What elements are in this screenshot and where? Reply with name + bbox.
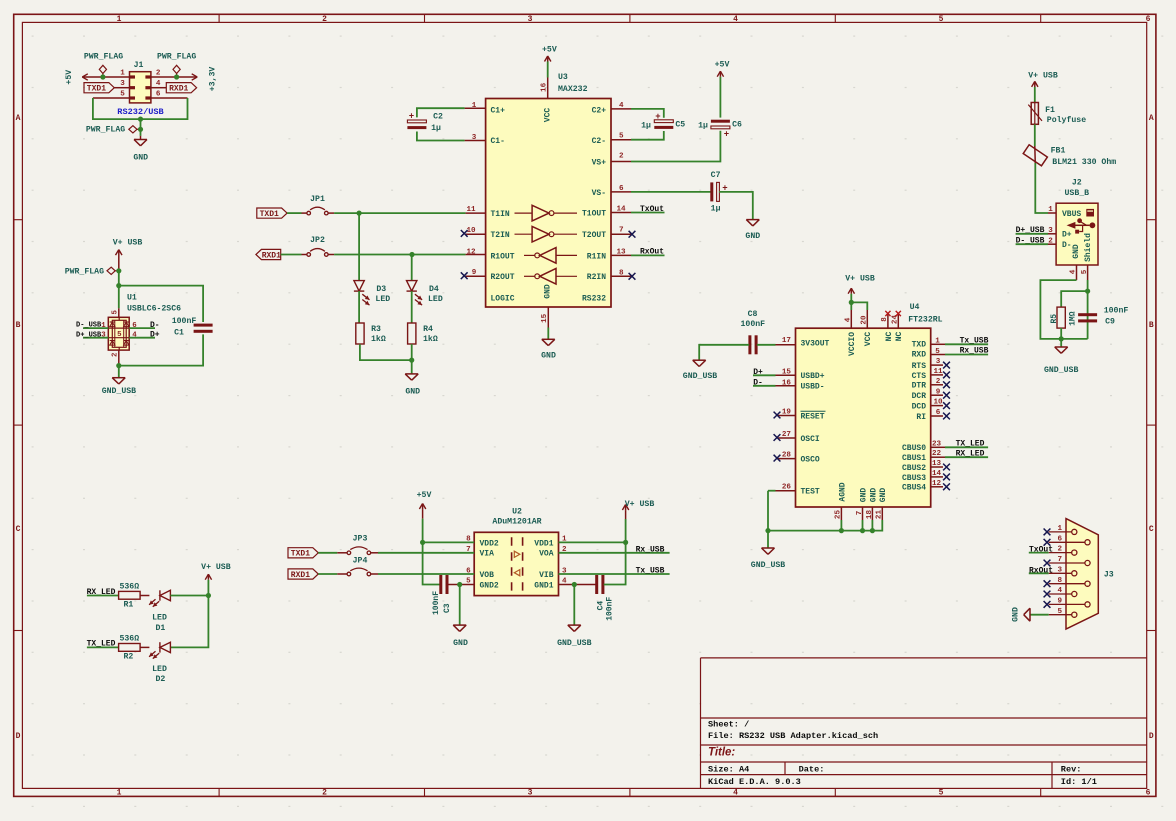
global label TXD1 at JP3 [288,548,318,558]
power V+ USB above U4 [848,288,851,294]
wire V+ USB down to U1 [118,271,120,309]
junction U1 bottom [116,363,121,368]
capacitor C9 [1078,313,1097,316]
svg-text:VCC: VCC [864,332,873,347]
svg-text:NC: NC [885,332,894,342]
svg-text:Rx_USB: Rx_USB [960,347,989,356]
svg-text:1µ: 1µ [431,124,441,133]
power V+ USB symbol at U1 [116,250,119,256]
svg-text:6: 6 [936,409,941,417]
wire C6 to +5V [719,77,721,118]
svg-text:A: A [16,114,21,123]
no-connect X U4 pin28 [774,455,781,462]
J3 pin1 hole [1072,529,1077,534]
svg-text:5: 5 [935,348,940,356]
svg-text:USBD+: USBD+ [801,372,825,381]
U4 pin12 stub [931,486,943,488]
ground GND_USB at U1 [112,377,125,379]
svg-text:+3,3V: +3,3V [209,67,218,92]
junction RXD1 net [409,252,414,257]
svg-text:27: 27 [782,431,792,439]
U4 pin7 stub [862,507,864,520]
U1 pin2 stub [118,350,120,366]
J3 pin4 line [1049,593,1072,595]
svg-text:CBUS0: CBUS0 [902,444,926,453]
no-connect X U4 pin11 [943,372,950,379]
svg-text:GND: GND [405,387,420,396]
junction U1 top branch [116,283,121,288]
svg-text:1kΩ: 1kΩ [423,334,438,344]
svg-text:14: 14 [932,470,942,478]
wire FB1 to J2 VBUS [1035,163,1048,213]
svg-text:25: 25 [835,510,843,520]
svg-text:VS+: VS+ [592,158,607,167]
svg-text:C6: C6 [732,121,742,130]
svg-text:+: + [655,112,660,122]
wire D+ to U4 pin15 [753,374,776,376]
svg-text:CBUS3: CBUS3 [902,474,926,483]
svg-text:Id: 1/1: Id: 1/1 [1061,777,1097,787]
svg-text:LOGIC: LOGIC [491,295,515,304]
wire RXD1 to JP4 [318,573,337,575]
ground GND_USB below U4 [762,547,775,549]
J3 pin5 hole [1072,612,1077,617]
diode D2 LED [159,642,161,652]
wire R1 to D1 [140,595,149,597]
svg-text:FT232RL: FT232RL [908,315,942,324]
resistor R5 [1057,307,1065,328]
U4 pin4 stub [850,310,852,328]
svg-text:C2+: C2+ [592,107,607,116]
svg-text:TXD1: TXD1 [87,85,106,94]
svg-text:7: 7 [856,510,864,515]
no-connect X J3 [1044,529,1051,536]
svg-text:LED: LED [152,613,167,622]
PWR_FLAG flag at +3.3V [176,74,178,78]
global label RXD1 at JP4 [288,569,318,579]
svg-text:MAX232: MAX232 [558,85,588,94]
svg-text:TEST: TEST [801,488,820,497]
J3 pin9 hole [1085,602,1090,607]
svg-text:VBUS: VBUS [1062,210,1081,219]
no-connect X U4 pin10 [943,402,950,409]
svg-text:TX_LED: TX_LED [956,440,985,449]
svg-text:GND: GND [1012,607,1021,622]
svg-text:V+ USB: V+ USB [201,563,231,572]
J3 pin6 hole [1085,540,1090,545]
svg-text:RS232: RS232 [582,295,606,304]
no-connect X J3 [1044,560,1051,567]
no-connect X J3 [1044,591,1051,598]
svg-text:9: 9 [936,388,941,396]
svg-text:C3: C3 [443,603,452,613]
svg-text:ADuM1201AR: ADuM1201AR [492,518,541,527]
wire TxOut to J3 pin2 [1029,552,1049,554]
svg-text:2: 2 [619,153,624,161]
svg-text:536Ω: 536Ω [119,583,139,592]
svg-text:1: 1 [117,789,122,798]
svg-text:LED: LED [428,295,443,304]
power V+ USB above U2 [622,505,625,511]
svg-text:Tx_USB: Tx_USB [960,336,989,345]
svg-text:10: 10 [933,399,943,407]
wire +5V rail at U2 [423,519,440,585]
U4 pin8 stub [887,314,889,329]
svg-text:J1: J1 [134,61,144,70]
wire U3 pin13 RxOut [611,254,631,256]
svg-text:6: 6 [1058,535,1063,543]
svg-text:+5V: +5V [65,70,74,85]
junction +5V J1 pin1 [100,74,105,79]
svg-text:2: 2 [1058,546,1063,554]
jumper JP4 [347,572,351,576]
wire shield down [1087,280,1089,339]
power +5V above U2 [419,504,422,510]
svg-text:B: B [1149,321,1154,330]
svg-text:C2: C2 [433,112,443,121]
svg-text:BLM21 330 Ohm: BLM21 330 Ohm [1052,157,1116,167]
svg-text:7: 7 [466,546,471,554]
ground GND at J3 (left) [1029,608,1031,621]
svg-text:100nF: 100nF [741,320,766,329]
U3 pin15 stub [547,307,549,328]
wire R3 to GND rail [360,344,412,360]
no-connect X U4 pin27 [774,434,781,441]
svg-text:10: 10 [466,227,476,235]
capacitor C1 [194,324,213,327]
svg-text:LED: LED [152,665,167,674]
svg-text:R5: R5 [1050,314,1059,324]
svg-text:TXD1: TXD1 [260,210,279,219]
svg-text:4: 4 [1070,269,1078,274]
capacitor C2 (polarized) [407,120,426,123]
diode D3 LED [354,290,364,292]
PWR_FLAG flag at +5V [102,74,104,78]
isolator U2 body [474,532,558,595]
U3 pin10 stub [466,233,486,235]
title block [701,658,1147,789]
U4 pin28 stub [778,458,796,460]
wire J2 gnd loop [1040,280,1087,339]
svg-text:R3: R3 [371,325,381,334]
junction gnd rail 18 [870,528,875,533]
svg-text:6: 6 [156,90,161,98]
svg-text:DCD: DCD [912,403,927,412]
svg-text:A: A [1149,114,1154,123]
svg-text:T2IN: T2IN [491,231,510,240]
connector J3 body [1066,519,1098,629]
power V+ USB at leds [205,574,208,580]
U1 pin4 wire [129,337,155,339]
svg-text:C1-: C1- [491,137,505,146]
junction V+USB U2 [623,540,628,545]
svg-text:Tx_USB: Tx_USB [636,567,665,576]
resistor R4 [408,323,416,344]
svg-text:VIB: VIB [539,571,554,580]
wire JP1 to U3 pin11 [328,212,334,214]
svg-text:T2OUT: T2OUT [582,231,606,240]
J3 pin2 hole [1072,550,1077,555]
svg-text:Polyfuse: Polyfuse [1047,115,1086,125]
svg-text:V+ USB: V+ USB [845,275,875,284]
ground GND_USB left of U4 [693,359,706,361]
J3 pin8 line [1049,583,1085,585]
svg-text:2: 2 [322,15,327,24]
svg-text:1: 1 [1058,525,1063,533]
svg-text:GND: GND [859,488,868,503]
svg-text:3: 3 [936,358,941,366]
wire V+USB to F1 [1034,87,1036,103]
svg-text:12: 12 [932,480,942,488]
svg-text:2: 2 [1048,238,1053,246]
J3 pin2 line [1049,552,1072,554]
svg-text:D+: D+ [150,331,160,340]
no-connect X U4 pin12 [943,483,950,490]
svg-text:26: 26 [782,484,792,492]
svg-text:+5V: +5V [417,491,432,500]
svg-text:R1OUT: R1OUT [491,252,515,261]
junction GND flag [138,127,143,132]
svg-text:NC: NC [895,332,904,342]
wire D1 to V+USB [170,595,208,597]
svg-text:GND: GND [745,232,760,241]
svg-text:VOA: VOA [539,550,554,559]
svg-text:R1IN: R1IN [587,252,606,261]
svg-text:3: 3 [528,789,533,798]
svg-text:U2: U2 [512,508,522,517]
junction V+ USB flag [116,268,121,273]
U3 pin8 stub [611,275,631,277]
svg-text:GND_USB: GND_USB [751,561,785,570]
U4 pin9 stub [931,394,943,396]
svg-text:1: 1 [117,15,122,24]
svg-text:U1: U1 [127,294,137,303]
svg-text:D-: D- [1062,241,1072,250]
ground GND_USB below U2 [568,624,581,626]
power V+ USB above F1 [1032,81,1035,87]
junction RS232/USB loop [138,117,143,122]
svg-text:R2: R2 [123,653,133,662]
J3 pin7 hole [1085,560,1090,565]
junction +3.3V J1 pin2 [174,74,179,79]
no-connect X U3 pin7 [629,231,636,238]
wire TXD1 to JP3 [318,552,337,554]
svg-text:OSCO: OSCO [801,456,820,465]
U4 pin11 stub [931,374,943,376]
junction gnd rail 7 [860,528,865,533]
J3 pin9 line [1049,603,1085,605]
wire C7 to GND [719,192,753,220]
svg-text:5: 5 [466,578,471,586]
svg-text:22: 22 [932,450,942,458]
svg-text:RXD1: RXD1 [291,571,310,580]
svg-text:Date:: Date: [799,764,825,774]
svg-text:T1OUT: T1OUT [582,209,606,218]
svg-text:D: D [16,732,21,741]
wire RS232/USB loop [93,98,188,119]
svg-text:C5: C5 [675,121,685,130]
svg-text:6: 6 [1146,15,1151,24]
svg-text:F1: F1 [1045,106,1055,115]
svg-text:C4: C4 [596,601,605,611]
wire JP3 to U2 pin7 [371,552,378,554]
svg-text:GND: GND [133,153,148,162]
svg-text:JP3: JP3 [353,535,368,544]
svg-text:TXD1: TXD1 [291,550,310,559]
wire U4 ground rail [768,491,882,531]
svg-text:PWR_FLAG: PWR_FLAG [65,267,104,276]
svg-text:TXD: TXD [912,341,927,350]
U4 pin20 stub [866,310,868,328]
svg-text:21: 21 [876,510,884,520]
svg-text:D+_USB: D+_USB [76,331,102,339]
svg-text:17: 17 [782,337,792,345]
svg-text:GND_USB: GND_USB [557,639,591,648]
svg-text:8: 8 [881,317,889,322]
U1 pin6 wire [129,327,155,329]
svg-text:VCC: VCC [544,108,553,123]
svg-text:JP4: JP4 [353,556,368,565]
wire U4 pin23 TX_LED [931,446,945,448]
svg-text:USB_B: USB_B [1065,189,1090,198]
wire C8 to GND_USB [699,345,749,360]
resistor R1 [119,591,141,599]
no-connect X U3 pin9 [461,272,468,279]
jumper JP3 [347,551,351,555]
J3 pin8 hole [1085,581,1090,586]
svg-text:20: 20 [861,315,869,325]
svg-text:100nF: 100nF [605,597,614,621]
wire U3 pin6 to C7 [611,191,631,193]
svg-text:PWR_FLAG: PWR_FLAG [86,126,125,135]
jumper JP2 [307,253,311,257]
svg-text:FB1: FB1 [1051,147,1066,156]
J2 usb icon [1086,209,1094,217]
svg-text:GND_USB: GND_USB [683,372,717,381]
svg-text:9: 9 [1058,598,1063,606]
svg-text:DCR: DCR [912,392,927,401]
J1 pin 4 wire [151,87,166,89]
svg-text:LED: LED [375,295,390,304]
U4 pin14 stub [931,476,943,478]
svg-text:C1: C1 [174,328,184,337]
svg-text:+: + [409,111,414,121]
svg-text:8: 8 [619,270,624,278]
svg-text:VCCIO: VCCIO [848,332,857,356]
svg-text:19: 19 [782,408,792,416]
wire D3 to R3 [358,291,360,323]
svg-text:5: 5 [939,15,944,24]
wire F1 to FB1 [1034,124,1036,146]
wire D4 to R4 [411,291,413,323]
no-connect X U4 pin14 [943,474,950,481]
wire +5V to U3 pin16 [547,62,549,78]
unconnected x U4 pin8 [885,311,890,316]
svg-text:VIA: VIA [480,550,495,559]
svg-text:TxOut: TxOut [640,205,664,214]
svg-text:15: 15 [541,313,549,323]
svg-text:D2: D2 [155,675,165,684]
U4 pin10 stub [931,405,943,407]
junction GND1 [572,582,577,587]
svg-text:U4: U4 [910,303,920,312]
svg-text:1MΩ: 1MΩ [1068,311,1077,326]
svg-text:D3: D3 [376,285,386,294]
U3 pin16 stub [547,78,549,99]
wire TXD1 to JP1 [287,212,301,214]
svg-text:2: 2 [322,789,327,798]
svg-text:1: 1 [120,70,125,78]
junction +5V U2 pin8 [420,540,425,545]
protection IC U1 body [108,317,129,350]
svg-text:R1: R1 [123,600,133,609]
wire U2 pin2 Rx_USB [559,552,670,554]
junction V+USB leds [206,593,211,598]
svg-text:18: 18 [866,510,874,520]
svg-text:USBLC6-2SC6: USBLC6-2SC6 [127,305,181,314]
svg-text:JP2: JP2 [310,236,325,245]
U3 pin7 stub [611,233,631,235]
U3 pin11 line [466,212,486,214]
junction GND2 [457,582,462,587]
wire U4 pin5 Rx_USB [931,354,945,356]
svg-text:8: 8 [1058,577,1063,585]
wire U2 pin3 Tx_USB [559,573,670,575]
svg-text:DTR: DTR [912,382,927,391]
wire GND1 down [573,585,575,626]
svg-text:6: 6 [1146,789,1151,798]
connector J1 body [130,72,151,103]
svg-text:J2: J2 [1072,178,1082,187]
wire U1 to GND_USB [118,366,120,378]
wire C8 to U4 pin17 [757,344,776,346]
wire C1 bottom to U1 pin2 [119,334,203,365]
svg-text:GND_USB: GND_USB [102,387,136,396]
svg-text:7: 7 [1058,556,1063,564]
J3 pin6 line [1049,541,1085,543]
svg-text:6: 6 [466,567,471,575]
J2 pin4 stub [1076,265,1078,280]
U3 pin12 line [466,254,486,256]
power +5V above C6 [717,71,720,77]
wire branch to C1 top [119,286,203,322]
wire C2 to U3 pin3 [465,140,486,142]
svg-text:RXD1: RXD1 [169,85,188,94]
svg-text:2: 2 [156,70,161,78]
svg-text:1µ: 1µ [641,122,651,131]
connector J2 USB_B body [1056,203,1098,265]
capacitor C7 (polarized) [710,182,713,201]
wire U3 pin15 to GND [547,328,549,340]
svg-text:J3: J3 [1104,571,1114,580]
U4 pin2 stub [931,384,943,386]
junction gnd rail 25 [839,528,844,533]
svg-text:4: 4 [845,317,853,322]
svg-text:RTS: RTS [912,362,927,371]
svg-text:KiCad E.D.A. 9.0.3: KiCad E.D.A. 9.0.3 [708,777,801,787]
svg-text:C2-: C2- [592,137,606,146]
resistor R2 [119,644,141,652]
svg-text:CTS: CTS [912,372,927,381]
svg-text:5: 5 [1058,608,1063,616]
svg-text:GND: GND [869,488,878,503]
J3 pin5 line [1049,614,1072,616]
svg-text:8: 8 [466,535,471,543]
junction VCC branch [849,300,854,305]
svg-text:Sheet: /: Sheet: / [708,720,749,730]
svg-text:RxOut: RxOut [1029,566,1053,575]
svg-text:TxOut: TxOut [1029,545,1053,554]
